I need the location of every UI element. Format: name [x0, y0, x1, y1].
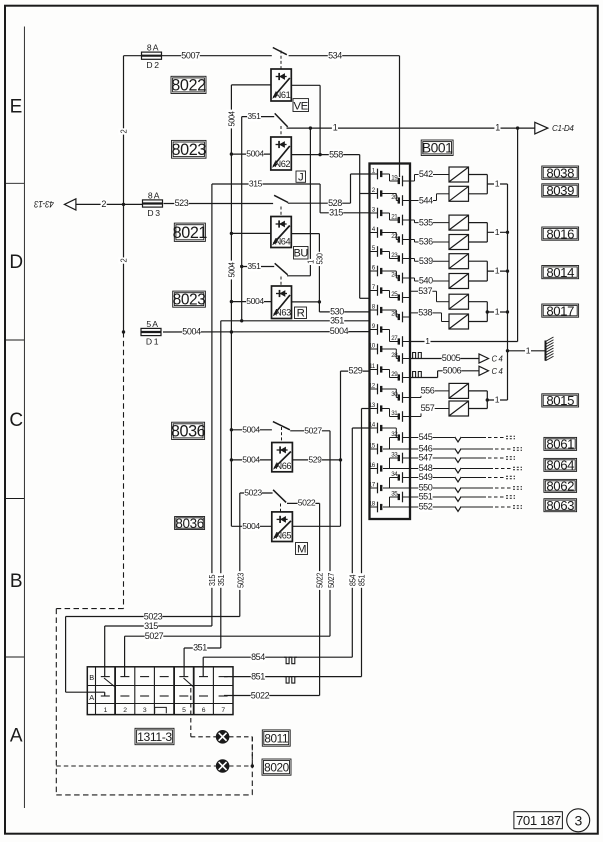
wire 556 — [410, 386, 449, 398]
wire vertical net 2 lower — [118, 204, 128, 332]
wire vertical net 2 upper — [118, 56, 128, 205]
wire 5027 bottom — [125, 631, 330, 641]
zone tick C/B — [5, 498, 24, 500]
wire 5007 — [162, 50, 272, 60]
junction dashed node — [251, 764, 254, 767]
colour box BU — [293, 247, 308, 260]
wire 5022 bottom — [224, 690, 320, 700]
wire 351 horizontal — [221, 315, 370, 325]
wire 530 to pin 8 — [319, 307, 369, 317]
svg-text:18: 18 — [369, 500, 376, 507]
label box 8063 — [544, 498, 577, 513]
switch contact N66 — [273, 422, 290, 430]
svg-text:545: 545 — [419, 432, 433, 442]
svg-text:8039: 8039 — [546, 183, 574, 198]
wire to ground — [508, 345, 546, 355]
pin 4 — [370, 226, 382, 238]
wire 315 bottom — [105, 621, 212, 631]
wire lamp join 539/540 — [486, 261, 488, 281]
svg-text:5023: 5023 — [236, 572, 246, 588]
wire 540 — [410, 276, 449, 286]
label box 8020 — [262, 759, 291, 775]
svg-text:21: 21 — [391, 213, 398, 220]
svg-text:8021: 8021 — [173, 224, 208, 242]
wire 534 drop to pin 19 — [399, 56, 401, 177]
wire vertical 5004 — [226, 85, 236, 526]
wire 549 — [410, 472, 515, 482]
wire 536 out — [469, 241, 488, 243]
wire 545 — [410, 432, 515, 442]
svg-text:529: 529 — [308, 455, 322, 465]
label box 8038 — [542, 165, 579, 180]
off-page arrow 43-13 — [33, 199, 75, 210]
svg-text:8020: 8020 — [264, 760, 289, 774]
svg-text:N66: N66 — [275, 461, 291, 471]
zone tick D/C — [5, 339, 24, 341]
svg-text:8011: 8011 — [264, 731, 288, 745]
svg-text:529: 529 — [348, 366, 362, 376]
junction 1 b — [506, 231, 509, 234]
wire 5027 into B2 — [124, 636, 126, 676]
jumper pin6-pin24 — [381, 271, 399, 278]
wire vertical 5023 — [236, 493, 246, 617]
zone letter C — [9, 410, 22, 431]
svg-text:J: J — [298, 172, 303, 184]
fuse D2 8A — [141, 43, 162, 70]
junction net2/fuse D1 — [122, 330, 125, 333]
actuator link N65 — [280, 504, 282, 512]
wire lamp join 535/536 — [486, 223, 488, 242]
off-page arrow C4 b — [479, 366, 503, 376]
pin 12 — [369, 382, 381, 394]
pin 32 — [391, 431, 410, 443]
wire 528 riser — [350, 174, 352, 203]
svg-text:29: 29 — [391, 371, 398, 378]
svg-text:16: 16 — [369, 462, 376, 469]
wire N63 left 5004 — [231, 296, 271, 306]
wire vertical net 1 — [306, 128, 316, 276]
wire 351 bottom — [184, 643, 221, 653]
wire 528 — [288, 198, 351, 208]
wire dashed option drop — [123, 332, 125, 609]
pin 34 — [391, 471, 410, 483]
pin 22 — [391, 233, 410, 245]
relay lamp N65 — [272, 512, 293, 542]
svg-text:5006: 5006 — [443, 365, 462, 375]
label box 8064 — [544, 458, 577, 473]
actuator link N64 — [280, 207, 282, 217]
pin 35 — [391, 490, 410, 502]
wire arrow to fuse D3 — [76, 199, 143, 209]
keying notch — [155, 707, 167, 713]
label box B001 — [421, 140, 453, 156]
wire 854 — [203, 652, 352, 662]
svg-text:B: B — [10, 571, 22, 592]
svg-text:5027: 5027 — [145, 631, 164, 641]
wire 536 — [410, 237, 449, 247]
wire N61 right — [291, 84, 320, 86]
colour box R — [295, 307, 307, 320]
wire 851 from pin 13 — [362, 408, 370, 410]
svg-text:33: 33 — [391, 451, 398, 458]
title block number 701 187 — [514, 812, 563, 829]
colour box M — [296, 543, 308, 556]
pin 9 — [370, 323, 382, 335]
wire 548 — [383, 463, 522, 473]
wire 5004 stub N66 switch — [231, 424, 272, 434]
svg-text:31: 31 — [391, 410, 398, 417]
svg-text:22: 22 — [391, 233, 398, 240]
wire dashed to bulb 8020 — [56, 765, 216, 767]
svg-text:851: 851 — [251, 671, 265, 681]
svg-text:351: 351 — [216, 574, 226, 586]
svg-text:25: 25 — [391, 291, 398, 298]
svg-text:701 187: 701 187 — [516, 813, 561, 828]
sheet number circle 3 — [567, 809, 590, 832]
wire vertical 351 relays — [241, 117, 243, 321]
label box 8015 — [542, 393, 579, 408]
wire 1 pin 27 — [410, 336, 518, 346]
wire N63 switch out — [287, 275, 310, 277]
wire 530 vertical — [315, 234, 325, 312]
wire 5005 — [410, 353, 479, 364]
svg-text:5004: 5004 — [226, 262, 236, 278]
wire dashed bottom — [56, 794, 252, 796]
wire N61 riser to 558 — [319, 85, 321, 154]
wire riser pin 27 — [517, 128, 519, 341]
wire 558 to pin 7 — [360, 297, 370, 299]
junction join d — [486, 310, 489, 313]
svg-text:544: 544 — [419, 195, 433, 205]
zone letter E — [10, 96, 22, 117]
svg-text:A: A — [10, 725, 23, 746]
wire 537 — [410, 286, 449, 302]
wire 854 from pin 14 — [352, 427, 369, 429]
pin 13 — [369, 402, 381, 414]
wire 557 out — [469, 408, 488, 410]
left margin line — [23, 27, 25, 809]
jumper pin4-pin22 — [381, 233, 399, 240]
fuse D1 5A — [141, 319, 162, 346]
pin 11 — [369, 363, 381, 375]
wire 546 — [383, 444, 522, 454]
svg-text:D 1: D 1 — [146, 336, 159, 346]
svg-text:C: C — [9, 410, 22, 431]
svg-text:8 A: 8 A — [147, 43, 159, 53]
wire N66 left 5004 — [231, 455, 271, 465]
relay lamp N66 — [272, 443, 293, 472]
switch arm B5-A5 — [184, 678, 194, 687]
fuse D3 8A — [142, 191, 163, 218]
junction 530/N63 — [318, 300, 321, 303]
junction 351/N63 stub — [240, 265, 243, 268]
jumper pin13-pin31 — [381, 409, 399, 417]
wire dashed to bulb 8011 — [191, 736, 216, 738]
svg-text:552: 552 — [419, 502, 433, 512]
jumper pin12-pin30 — [381, 389, 399, 398]
svg-text:34: 34 — [391, 471, 398, 478]
label box 8011 — [262, 730, 290, 746]
pin 28 — [391, 352, 410, 364]
relay lamp N62 — [271, 137, 292, 170]
svg-text:315: 315 — [329, 207, 343, 217]
svg-text:315: 315 — [144, 621, 158, 631]
pin 31 — [391, 410, 410, 422]
wire 535 — [410, 217, 449, 227]
pin 27 — [391, 335, 410, 347]
wire N64 left 5004 — [231, 232, 271, 234]
svg-text:5004: 5004 — [226, 111, 236, 127]
svg-text:26: 26 — [391, 310, 398, 317]
svg-text:5023: 5023 — [144, 611, 163, 621]
pin 16 — [369, 462, 381, 474]
wire 854 riser — [347, 428, 357, 657]
wire 1 main — [287, 123, 536, 133]
svg-text:8023: 8023 — [172, 141, 207, 159]
wire fuse D2 to vertical — [124, 55, 142, 57]
wire N61 left 5004 — [231, 84, 271, 86]
lamp 544 — [449, 186, 469, 201]
svg-text:530: 530 — [315, 253, 324, 265]
wire 534 — [289, 50, 400, 60]
jumper pin11-pin29 — [381, 370, 399, 378]
zone letter A — [10, 725, 23, 746]
off-page arrow C4 a — [479, 354, 503, 364]
svg-text:1: 1 — [495, 227, 500, 237]
svg-text:536: 536 — [419, 237, 433, 247]
svg-text:5023: 5023 — [244, 488, 262, 498]
wire N64 right 530 — [291, 233, 319, 235]
jumper pin14-pin32 — [381, 428, 399, 438]
wire 542 — [410, 169, 449, 181]
svg-text:20: 20 — [391, 194, 398, 201]
wire 529 from N66 — [292, 455, 340, 465]
svg-text:8062: 8062 — [546, 479, 574, 494]
svg-text:N61: N61 — [275, 90, 291, 100]
svg-text:N64: N64 — [275, 237, 291, 247]
relay lamp N61 — [271, 69, 291, 101]
pin 8 — [370, 303, 382, 315]
pin 21 — [391, 213, 410, 225]
wire dashed riser to lamps — [251, 737, 253, 795]
wire 537 out — [469, 301, 488, 303]
wire lamp join 542/544 — [486, 175, 488, 194]
label box 8039 — [542, 183, 579, 198]
colour box J — [296, 171, 306, 184]
svg-text:558: 558 — [329, 149, 343, 159]
jumper pin18-pin35 — [390, 497, 399, 507]
svg-text:5022: 5022 — [298, 498, 316, 508]
wire 540 out — [469, 280, 488, 282]
svg-text:8038: 8038 — [546, 165, 574, 180]
wire 1 stub c — [487, 266, 507, 276]
pin 1 — [370, 167, 382, 179]
wire vertical 5022 — [315, 503, 325, 695]
svg-text:5022: 5022 — [315, 572, 325, 588]
off-page arrow C1-D4 — [535, 122, 574, 134]
lamp 536 — [449, 235, 469, 250]
svg-text:5007: 5007 — [181, 50, 200, 60]
svg-text:2: 2 — [119, 258, 129, 262]
lamp 538 — [449, 314, 469, 329]
wire 1 stub a — [487, 179, 507, 189]
svg-text:523: 523 — [175, 198, 189, 208]
svg-text:1: 1 — [495, 395, 500, 405]
svg-text:539: 539 — [419, 256, 433, 266]
junction 1/vertical A — [309, 126, 312, 129]
pin 18 — [369, 500, 381, 512]
svg-text:5027: 5027 — [326, 572, 336, 588]
bulb 8011 — [216, 731, 228, 743]
lamp 537 — [449, 294, 469, 309]
svg-text:N63: N63 — [275, 308, 291, 318]
label box 8021 — [173, 223, 208, 242]
actuator link N63 — [280, 277, 282, 287]
label box 8036 b — [175, 516, 205, 531]
svg-text:5004: 5004 — [242, 455, 260, 465]
pin 20 — [391, 194, 410, 206]
relay lamp N63 — [272, 286, 292, 319]
pin 25 — [391, 291, 410, 303]
svg-text:8036: 8036 — [175, 516, 203, 531]
svg-text:D 2: D 2 — [146, 60, 159, 70]
wire 315 jog down — [319, 184, 321, 213]
svg-text:R: R — [297, 308, 305, 320]
wire 539 — [410, 256, 449, 266]
zone tick B/A — [5, 656, 24, 658]
pin 7 — [370, 284, 382, 296]
wire 851 — [224, 671, 362, 681]
wire lamp join 556/557 — [486, 391, 488, 409]
wire 315 horizontal — [212, 179, 320, 189]
connector B001 body — [370, 164, 411, 520]
svg-text:32: 32 — [391, 431, 398, 438]
svg-text:537: 537 — [418, 286, 432, 296]
svg-text:851: 851 — [357, 574, 367, 586]
wire 315 into B1 — [104, 626, 106, 677]
svg-text:3: 3 — [575, 812, 583, 828]
svg-text:8036: 8036 — [171, 423, 206, 441]
svg-text:A: A — [89, 693, 94, 702]
label box 8023 b — [173, 291, 206, 309]
switch contact N61 — [273, 48, 287, 55]
jumper pin9-pin27 — [381, 330, 399, 342]
wire 550 — [383, 483, 522, 493]
svg-text:24: 24 — [391, 271, 398, 278]
lamp 535 — [449, 215, 469, 230]
svg-text:10: 10 — [369, 342, 376, 349]
svg-text:351: 351 — [330, 315, 344, 325]
wire N65 right link — [292, 525, 340, 527]
label box 8023 a — [172, 140, 207, 159]
pin 23 — [391, 252, 410, 264]
junction 5004/N64 — [230, 232, 233, 235]
wire 552 — [383, 502, 522, 512]
pin 33 — [391, 451, 410, 463]
wire 5023 into A1 — [66, 692, 105, 696]
bulb 8020 — [216, 760, 228, 772]
junction 1/pin27 riser — [516, 126, 519, 129]
junction 351 — [240, 319, 243, 322]
wire 539 out — [469, 260, 488, 262]
svg-text:315: 315 — [249, 179, 263, 189]
junction 5004/N63 — [230, 300, 233, 303]
label box 8014 — [542, 265, 579, 280]
pin 15 — [369, 442, 381, 454]
jumper pin15-pin32 — [390, 438, 399, 450]
junction 5004/N62 — [230, 152, 233, 155]
wire 5023 stub N65 switch — [240, 488, 273, 498]
svg-text:N65: N65 — [275, 531, 291, 541]
pin 6 — [370, 264, 382, 276]
svg-text:351: 351 — [247, 111, 261, 121]
relay lamp N64 — [271, 217, 291, 248]
svg-text:8014: 8014 — [546, 265, 574, 280]
svg-text:M: M — [297, 543, 306, 555]
svg-text:5004: 5004 — [182, 327, 201, 337]
svg-text:E: E — [10, 96, 22, 117]
wire 315 to pin 3 — [320, 207, 369, 217]
lamp 556 — [449, 383, 469, 398]
svg-text:5004: 5004 — [246, 296, 264, 306]
wire vertical 5027 — [326, 431, 336, 636]
switch arm B1-A1 — [104, 678, 115, 687]
svg-text:535: 535 — [419, 217, 433, 227]
svg-text:1311-3: 1311-3 — [137, 730, 172, 744]
svg-text:17: 17 — [369, 481, 376, 488]
svg-text:B001: B001 — [422, 141, 453, 156]
wire 5023 bottom — [66, 611, 240, 621]
wire 854 into B6 — [202, 657, 204, 676]
connector 1311-3 row A contacts — [101, 695, 228, 697]
svg-text:28: 28 — [391, 352, 398, 359]
svg-text:N62: N62 — [274, 159, 290, 169]
svg-text:VE: VE — [293, 100, 308, 112]
junction 558/N61 — [318, 153, 321, 156]
pin 3 — [370, 206, 382, 218]
switch contact N63 — [275, 263, 288, 275]
junction 5004/N66 switch — [230, 428, 233, 431]
svg-text:351: 351 — [193, 643, 207, 653]
label box 8016 — [542, 226, 579, 241]
wire N63 right — [292, 301, 320, 303]
svg-text:2: 2 — [123, 707, 127, 714]
svg-text:1: 1 — [495, 307, 500, 317]
junction 529 — [339, 458, 342, 461]
switch contact N62 — [275, 113, 288, 127]
label box 8036 a — [171, 422, 206, 440]
switch contact N64 — [274, 195, 288, 202]
jumper pin5-pin23 — [381, 252, 399, 259]
pin 10 — [369, 342, 381, 354]
svg-text:5 A: 5 A — [146, 319, 158, 329]
wire 523 — [164, 198, 274, 208]
pin 24 — [391, 271, 410, 283]
svg-text:1: 1 — [526, 345, 531, 355]
wire 1 collector — [507, 184, 509, 400]
svg-text:528: 528 — [328, 198, 342, 208]
pin 2 — [370, 187, 382, 199]
wire 538 — [410, 308, 449, 322]
jumper pin3-pin21 — [381, 213, 399, 220]
svg-text:43-13: 43-13 — [33, 199, 54, 210]
svg-text:8016: 8016 — [546, 226, 574, 241]
pin 29 — [391, 371, 410, 383]
svg-text:23: 23 — [391, 252, 398, 259]
wire 558 — [291, 149, 359, 159]
wire 1 stub b — [487, 227, 507, 237]
svg-text:2: 2 — [101, 199, 106, 209]
